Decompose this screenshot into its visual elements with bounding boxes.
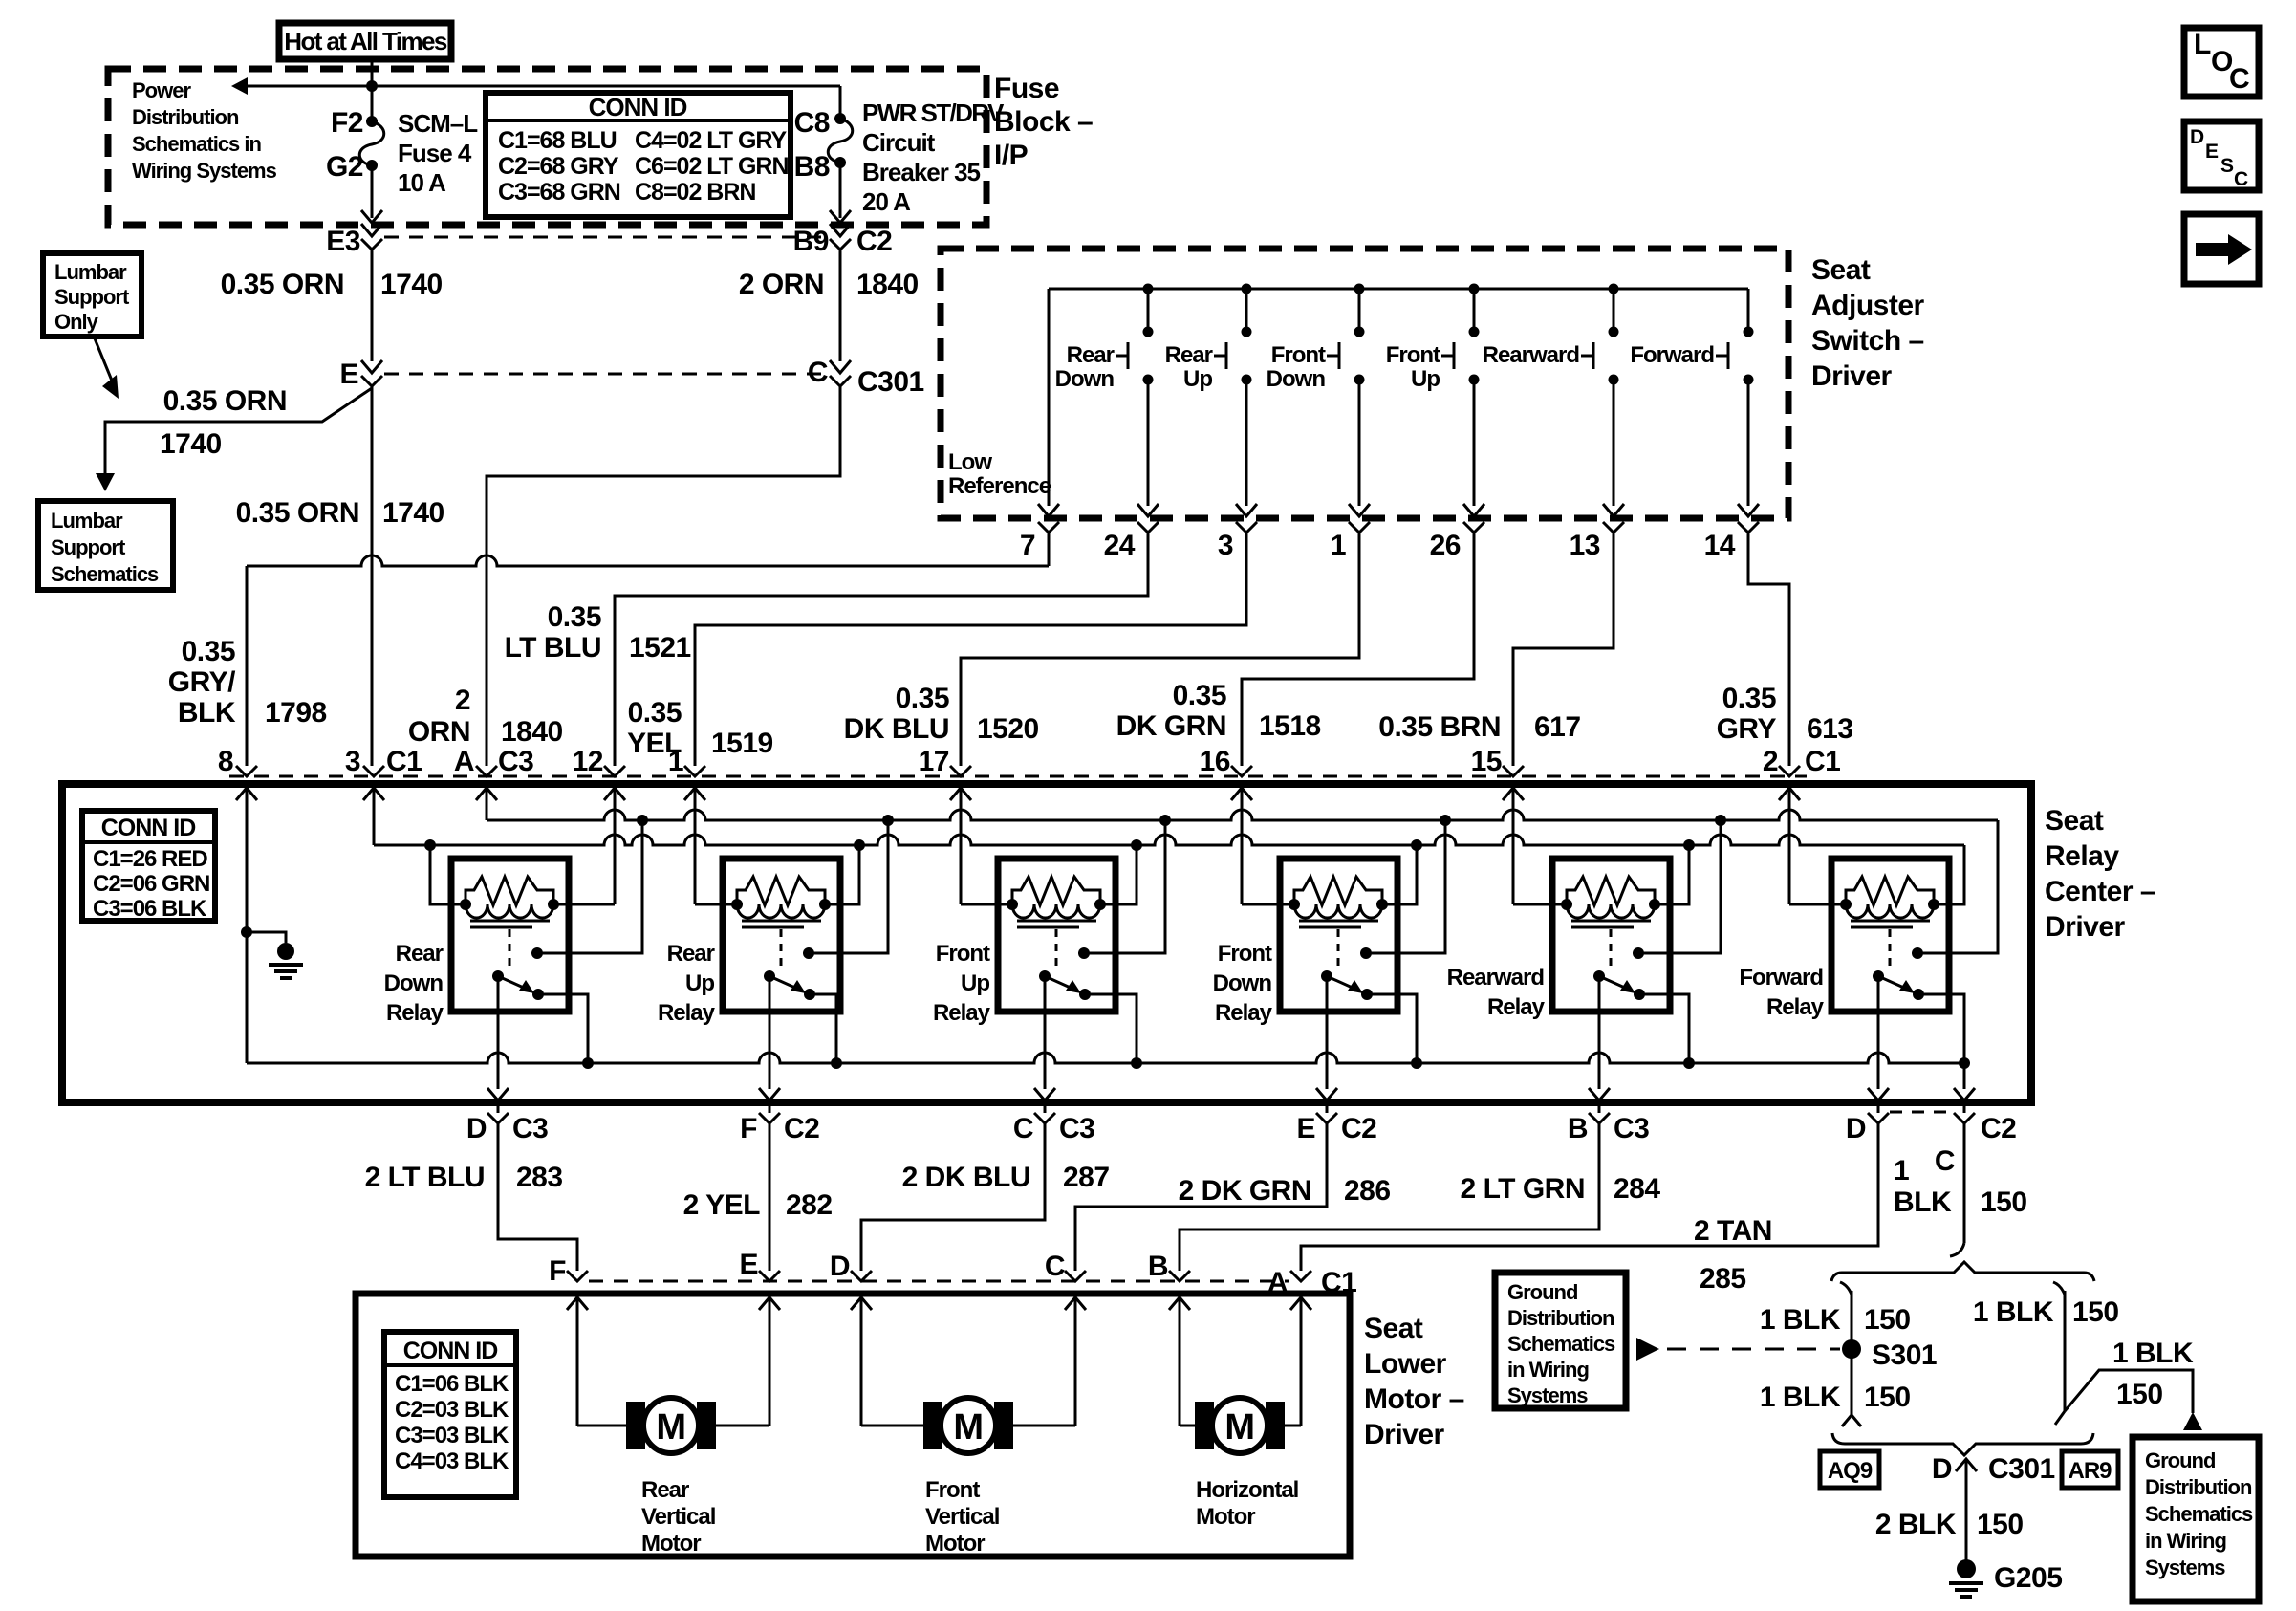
conn id table motor box	[384, 1332, 516, 1497]
svg-text:Relay: Relay	[1487, 994, 1546, 1020]
relay rearward coil inductor	[1561, 899, 1660, 918]
svg-text:Down: Down	[384, 970, 444, 996]
relay front up NO contact wire	[1084, 820, 1165, 953]
svg-text:F2: F2	[331, 107, 363, 139]
junction dot line B x1767	[1683, 839, 1695, 851]
wire pin 12 to rear down relay coil	[553, 799, 615, 904]
switch Rear Up	[1165, 289, 1257, 516]
svg-text:LT BLU: LT BLU	[505, 632, 601, 664]
svg-text:C1=26 RED: C1=26 RED	[93, 846, 207, 872]
relay center connector line C1/C3	[229, 775, 1807, 778]
relay front up box	[998, 859, 1116, 1012]
relay rear up coil feed riser	[825, 845, 859, 904]
relay front down core	[1299, 921, 1378, 927]
svg-text:C1: C1	[386, 746, 422, 777]
label 2 LT GRN 284	[1461, 1173, 1661, 1205]
svg-text:Adjuster: Adjuster	[1811, 290, 1925, 321]
label 0.35 LT BLU 1521	[505, 601, 691, 664]
svg-text:1 BLK: 1 BLK	[2112, 1338, 2194, 1369]
switch Front Up	[1386, 289, 1484, 516]
relay front down label	[1213, 941, 1273, 1026]
lumbar support schematics box	[38, 501, 173, 590]
splice right branch 1 BLK 150	[2053, 1282, 2065, 1425]
svg-text:13: 13	[1570, 530, 1600, 561]
svg-text:Seat: Seat	[1364, 1313, 1423, 1344]
low reference label	[948, 449, 1051, 499]
label 2 DK GRN 286	[1179, 1175, 1391, 1207]
label 2 LT BLU 283	[365, 1162, 563, 1193]
svg-text:Breaker 35: Breaker 35	[862, 158, 981, 186]
svg-text:Schematics: Schematics	[2145, 1502, 2253, 1526]
svg-text:C1: C1	[1321, 1267, 1356, 1298]
svg-text:Driver: Driver	[1811, 360, 1893, 392]
label 1 BLK 150 upper right	[1973, 1296, 2119, 1328]
svg-text:0.35: 0.35	[182, 636, 235, 667]
relay center pin labels 8 3 C1 A C3 12 1 17 16 15 2 C1	[218, 746, 1841, 777]
svg-text:M: M	[1224, 1407, 1254, 1448]
wire rear down switch to relay pin 12 (0.35 LT BLU 1521)	[615, 533, 1148, 766]
svg-text:C2=06 GRN: C2=06 GRN	[93, 871, 209, 897]
switch Rearward	[1483, 289, 1624, 516]
relay forward core	[1851, 921, 1930, 927]
ground G205	[1949, 1559, 2062, 1597]
wire 2 YEL 282 to motor pin E	[769, 1123, 771, 1271]
wire pin 8 ground column	[246, 799, 249, 1063]
svg-text:Front: Front	[925, 1477, 980, 1503]
relay forward common pivot wire out	[1868, 976, 1889, 1113]
motor box entry connector A	[1290, 1271, 1311, 1310]
relay front down NC contact wire to ground bus	[1367, 994, 1417, 1063]
relay center entry connector pin 2 C1	[1779, 766, 1800, 800]
label 1 BLK 150 upper left	[1760, 1304, 1911, 1336]
svg-text:C6=02 LT GRN: C6=02 LT GRN	[635, 153, 789, 180]
svg-text:2: 2	[455, 685, 470, 716]
svg-text:C: C	[1013, 1113, 1033, 1144]
svg-text:2 DK GRN: 2 DK GRN	[1179, 1175, 1311, 1207]
svg-text:E: E	[1296, 1113, 1315, 1144]
svg-text:D: D	[2190, 126, 2204, 148]
relay front up switch	[1039, 947, 1091, 1000]
wire 2 ORN 1840 from C301 to relay pin A	[487, 386, 840, 766]
switch Rear Down	[1055, 289, 1159, 516]
seat lower motor label	[1364, 1313, 1464, 1450]
svg-text:2 LT GRN: 2 LT GRN	[1461, 1173, 1585, 1205]
svg-text:Schematics in: Schematics in	[132, 132, 262, 156]
wire fuse output to E3	[361, 165, 382, 223]
relay rear up coil resistor	[737, 877, 825, 905]
svg-text:282: 282	[786, 1189, 833, 1221]
svg-text:150: 150	[2072, 1296, 2119, 1328]
svg-text:G205: G205	[1994, 1562, 2062, 1594]
svg-text:Rear: Rear	[396, 941, 444, 967]
svg-text:Lower: Lower	[1364, 1348, 1447, 1380]
relay front up common pivot wire out	[1034, 976, 1055, 1113]
svg-text:D: D	[1846, 1113, 1866, 1144]
connector E3	[326, 224, 382, 257]
junction dot ground bus x1482	[1411, 1057, 1422, 1069]
junction dot line B x899	[854, 839, 865, 851]
connector line C301 (E/C)	[384, 373, 828, 376]
junction dot ground bus x2055	[1959, 1057, 1970, 1069]
svg-text:20 A: 20 A	[862, 187, 911, 216]
wire 2 DK BLU 287 to motor pin D	[861, 1123, 1045, 1271]
svg-text:B: B	[1148, 1251, 1168, 1282]
svg-text:AR9: AR9	[2068, 1458, 2112, 1484]
relay front up coil inductor	[1007, 899, 1106, 918]
svg-text:150: 150	[1977, 1509, 2024, 1540]
relay rear down armature link dashed	[509, 929, 511, 969]
wire line A from pin A to relay NO contacts	[487, 799, 1998, 953]
svg-text:Rear: Rear	[1067, 342, 1115, 368]
relay rear up label	[658, 941, 716, 1026]
wire feeds for Horizontal Motor	[1180, 1309, 1301, 1426]
svg-text:Distribution: Distribution	[2145, 1475, 2252, 1499]
wire 2 DK GRN 286 to motor pin C	[1075, 1123, 1327, 1271]
connector E	[339, 359, 382, 390]
wire 0.35 ORN 1740 label	[221, 269, 443, 300]
svg-text:C: C	[1045, 1251, 1065, 1282]
svg-text:150: 150	[1864, 1304, 1911, 1336]
svg-text:Relay: Relay	[933, 1000, 991, 1026]
svg-text:C2: C2	[1981, 1113, 2016, 1144]
relay center entry connector pin 15	[1503, 766, 1524, 800]
svg-text:Driver: Driver	[2045, 911, 2126, 943]
svg-text:Distribution: Distribution	[132, 105, 239, 129]
svg-text:C3: C3	[1614, 1113, 1649, 1144]
relay rearward coil resistor	[1567, 877, 1655, 905]
svg-text:L: L	[2194, 29, 2211, 60]
svg-text:B9: B9	[793, 226, 829, 257]
svg-text:Horizontal: Horizontal	[1196, 1477, 1298, 1503]
svg-text:Motor: Motor	[925, 1531, 985, 1557]
junction dot ground bus x615	[582, 1057, 594, 1069]
relay center entry connector pin 17	[950, 766, 971, 800]
svg-text:C3: C3	[1059, 1113, 1094, 1144]
motor Rear Vertical Motor	[626, 1398, 716, 1453]
svg-text:Wiring Systems: Wiring Systems	[132, 159, 277, 183]
svg-text:E: E	[739, 1249, 758, 1280]
svg-text:Hot at All Times: Hot at All Times	[284, 27, 447, 55]
motor box entry connector D	[851, 1271, 872, 1310]
relay front down armature link dashed	[1337, 929, 1340, 969]
ground bus wire in relay center	[247, 1053, 1964, 1063]
motor box entry connector B	[1169, 1271, 1190, 1310]
relay rear down common pivot wire out	[487, 976, 509, 1113]
relay forward NC contact wire to ground bus	[1918, 994, 1964, 1063]
svg-text:in Wiring: in Wiring	[1507, 1358, 1589, 1382]
relay rearward NO contact wire	[1638, 820, 1721, 953]
svg-text:C: C	[808, 357, 828, 388]
wire pin 1 to rear up relay coil	[695, 799, 737, 904]
svg-text:C: C	[1935, 1145, 1955, 1177]
relay rear up armature link dashed	[780, 929, 783, 969]
junction dot ground bus x1189	[1131, 1057, 1142, 1069]
svg-text:Low: Low	[948, 449, 992, 475]
svg-text:617: 617	[1534, 711, 1581, 743]
svg-text:Ground: Ground	[2145, 1448, 2215, 1472]
svg-text:1740: 1740	[380, 269, 443, 300]
off page arrow to S301	[1636, 1338, 1840, 1361]
svg-text:G2: G2	[326, 151, 363, 183]
svg-text:B8: B8	[794, 151, 830, 183]
switch connector pins 7 24 3 1 26 13 14	[1020, 522, 1759, 561]
svg-text:S: S	[2220, 155, 2234, 177]
svg-text:2 DK BLU: 2 DK BLU	[902, 1162, 1030, 1193]
svg-text:0.35 ORN: 0.35 ORN	[221, 269, 344, 300]
label 0.35 YEL 1519	[627, 697, 773, 759]
svg-text:SCM–L: SCM–L	[398, 109, 478, 138]
svg-text:3: 3	[345, 746, 360, 777]
svg-text:1840: 1840	[501, 716, 563, 748]
svg-text:C: C	[2234, 168, 2248, 190]
relay front up NC contact wire to ground bus	[1085, 994, 1137, 1063]
svg-text:Rear: Rear	[667, 941, 715, 967]
label 1 BLK 150	[1894, 1155, 2027, 1218]
svg-text:D: D	[1932, 1453, 1952, 1485]
relay forward armature link dashed	[1889, 929, 1892, 969]
svg-text:Relay: Relay	[1766, 994, 1825, 1020]
svg-text:F: F	[740, 1113, 757, 1144]
switch Forward	[1630, 289, 1759, 516]
relay front up coil feed riser	[1100, 845, 1137, 904]
wire 1 BLK 150 from pin C to splice	[1950, 1123, 1964, 1256]
svg-text:A: A	[1267, 1267, 1288, 1298]
svg-text:1 BLK: 1 BLK	[1760, 1304, 1841, 1336]
svg-text:1: 1	[1331, 530, 1346, 561]
junction dot line A x1800	[1715, 815, 1726, 826]
conn id table fuse block	[486, 93, 791, 217]
motor Horizontal Motor	[1195, 1398, 1285, 1453]
switch Front Down	[1267, 289, 1370, 516]
relay rearward core	[1571, 921, 1651, 927]
DESC icon	[2184, 121, 2259, 190]
svg-text:1798: 1798	[265, 697, 327, 729]
relay rear up coil inductor	[731, 899, 831, 918]
label 0.35 DK BLU 1520	[844, 683, 1039, 745]
relay front down box	[1280, 859, 1397, 1012]
relay rear down core	[470, 921, 550, 927]
svg-text:0.35 BRN: 0.35 BRN	[1378, 711, 1501, 743]
seat adjuster switch dashed box	[941, 249, 1788, 518]
svg-text:I/P: I/P	[994, 140, 1028, 171]
svg-text:1840: 1840	[856, 269, 919, 300]
label 0.35 BRN 617	[1378, 711, 1580, 743]
relay front down coil resistor	[1294, 877, 1382, 905]
svg-text:PWR ST/DRV: PWR ST/DRV	[862, 98, 1005, 127]
svg-text:1519: 1519	[711, 728, 773, 759]
svg-text:Circuit: Circuit	[862, 128, 936, 157]
junction dot line B x1482	[1411, 839, 1422, 851]
wire ground bus to pin C (1 BLK)	[1954, 1063, 1975, 1113]
svg-text:Center –: Center –	[2045, 876, 2155, 907]
relay rearward coil feed riser	[1655, 845, 1689, 904]
relay rearward NC contact wire to ground bus	[1639, 994, 1689, 1063]
svg-text:Lumbar: Lumbar	[51, 509, 123, 533]
relay center entry connector pin 16	[1231, 766, 1252, 800]
relay forward coil inductor	[1840, 899, 1939, 918]
relay bottom pin labels	[466, 1113, 2017, 1177]
svg-text:0.35: 0.35	[1722, 683, 1776, 714]
AR9 box	[2062, 1451, 2118, 1488]
junction dot at F2 feed	[366, 80, 378, 92]
svg-text:Motor: Motor	[1196, 1504, 1255, 1530]
svg-text:Relay: Relay	[1215, 1000, 1273, 1026]
connector C C301	[808, 357, 924, 398]
svg-text:Rearward: Rearward	[1447, 965, 1545, 991]
connector line C2 (E3/B9)	[384, 236, 828, 239]
relay front up core	[1017, 921, 1096, 927]
svg-text:E3: E3	[326, 226, 360, 257]
svg-text:1740: 1740	[160, 428, 222, 460]
svg-text:1520: 1520	[977, 713, 1039, 745]
svg-text:287: 287	[1063, 1162, 1110, 1193]
junction dot ground bus x1767	[1683, 1057, 1695, 1069]
label 0.35 GRY 613	[1717, 683, 1853, 745]
relay rearward armature link dashed	[1610, 929, 1613, 969]
wire 1 BLK 150 to ground distribution	[2065, 1338, 2202, 1430]
svg-text:C4=02 LT GRY: C4=02 LT GRY	[635, 127, 788, 154]
svg-text:1: 1	[1894, 1155, 1909, 1186]
svg-text:Rearward: Rearward	[1483, 342, 1580, 368]
relay rear up core	[742, 921, 821, 927]
svg-text:Relay: Relay	[2045, 840, 2119, 872]
svg-text:15: 15	[1471, 746, 1502, 777]
ground distribution schematics box left	[1495, 1273, 1626, 1408]
svg-text:12: 12	[573, 746, 603, 777]
fuse block label	[994, 73, 1093, 171]
svg-text:Block –: Block –	[994, 106, 1093, 138]
label 2 DK BLU 287	[902, 1162, 1110, 1193]
svg-text:Down: Down	[1267, 366, 1326, 392]
svg-text:Only: Only	[54, 310, 99, 334]
label 0.35 ORN 1740 mid	[236, 497, 444, 529]
svg-text:Distribution: Distribution	[1507, 1306, 1614, 1330]
svg-text:GRY/: GRY/	[168, 666, 236, 698]
svg-text:Front: Front	[1386, 342, 1440, 368]
svg-text:285: 285	[1700, 1263, 1746, 1295]
junction dot ground bus x875	[831, 1057, 842, 1069]
svg-text:CONN ID: CONN ID	[589, 93, 687, 121]
arrow lumbar only to wire	[95, 338, 119, 399]
svg-text:in Wiring: in Wiring	[2145, 1529, 2226, 1553]
relay front down NO contact wire	[1366, 820, 1445, 953]
svg-text:0.35: 0.35	[896, 683, 949, 714]
svg-text:Down: Down	[1213, 970, 1272, 996]
relay rear up switch	[764, 947, 815, 1000]
relay forward label	[1739, 965, 1824, 1020]
svg-text:Down: Down	[1055, 366, 1115, 392]
fuse block dashed box	[108, 69, 986, 225]
svg-text:C2: C2	[784, 1113, 819, 1144]
relay rear up NC contact wire to ground bus	[810, 994, 836, 1063]
low reference wire	[1038, 289, 1059, 516]
label Horizontal Motor	[1196, 1477, 1298, 1530]
svg-text:24: 24	[1104, 530, 1136, 561]
circuit breaker PWR ST/DRV 35 20A	[794, 98, 1005, 216]
motor Front Vertical Motor	[923, 1398, 1013, 1453]
svg-text:GRY: GRY	[1717, 713, 1777, 745]
wire line B from pin 3 to relay coils	[374, 799, 1964, 904]
relay front up armature link dashed	[1055, 929, 1058, 969]
svg-text:0.35: 0.35	[1173, 680, 1226, 711]
svg-text:Schematics: Schematics	[1507, 1332, 1615, 1356]
svg-text:283: 283	[516, 1162, 563, 1193]
relay rear down NO contact wire	[537, 820, 642, 953]
svg-text:2: 2	[1763, 746, 1778, 777]
seat relay center box	[62, 784, 2031, 1102]
svg-text:Rear: Rear	[641, 1477, 689, 1503]
svg-text:Vertical: Vertical	[925, 1504, 999, 1530]
svg-text:150: 150	[1864, 1382, 1911, 1413]
relay rearward label	[1447, 965, 1546, 1020]
svg-text:10 A: 10 A	[398, 168, 446, 197]
svg-text:D: D	[830, 1251, 850, 1282]
connector D C301 to ground	[1932, 1453, 2055, 1560]
svg-text:F: F	[549, 1255, 566, 1287]
wire pin 17 to front up relay coil	[961, 799, 1012, 904]
relay center entry connector pin 1	[684, 766, 705, 800]
svg-text:0.35: 0.35	[548, 601, 601, 633]
junction dot line A x1512	[1440, 815, 1451, 826]
svg-text:Vertical: Vertical	[641, 1504, 715, 1530]
svg-text:26: 26	[1430, 530, 1461, 561]
junction dot ground stub	[241, 926, 252, 938]
relay forward coil feed riser	[1934, 845, 1964, 904]
svg-text:Reference: Reference	[948, 473, 1051, 499]
motor box entry connector F	[567, 1271, 588, 1310]
relay center bottom connectors D C3 F C2 C C3 E C2 B C3 D C C2	[487, 1113, 1975, 1123]
svg-text:C8: C8	[794, 107, 830, 139]
svg-text:2 ORN: 2 ORN	[739, 269, 824, 300]
svg-text:C2: C2	[1341, 1113, 1376, 1144]
label 2 TAN 285	[1694, 1215, 1772, 1295]
svg-text:0.35 ORN: 0.35 ORN	[163, 385, 287, 417]
svg-text:C301: C301	[1988, 1453, 2055, 1485]
seat lower motor box	[356, 1294, 1350, 1557]
svg-text:Power: Power	[132, 78, 191, 102]
svg-text:1: 1	[668, 746, 683, 777]
svg-text:C3: C3	[498, 746, 533, 777]
svg-text:Ground: Ground	[1507, 1280, 1577, 1304]
svg-text:2 YEL: 2 YEL	[683, 1189, 760, 1221]
relay rear up box	[723, 859, 840, 1012]
wire pin 2 to forward relay coil	[1789, 799, 1846, 904]
ground distribution schematics box right	[2133, 1437, 2259, 1601]
relay rear down switch	[492, 947, 544, 1000]
svg-text:CONN ID: CONN ID	[101, 815, 196, 841]
svg-text:7: 7	[1020, 530, 1035, 561]
wire 2 LT GRN 284 to motor pin B	[1180, 1123, 1599, 1271]
wire front down switch to relay pin 17 (0.35 DK BLU 1520)	[961, 533, 1359, 766]
svg-text:Up: Up	[961, 970, 989, 996]
connector B9 C2	[793, 224, 893, 257]
svg-text:C3=03 BLK: C3=03 BLK	[395, 1423, 509, 1448]
label 2 YEL 282	[683, 1189, 833, 1221]
svg-text:BLK: BLK	[1894, 1186, 1952, 1218]
svg-text:C3=06 BLK: C3=06 BLK	[93, 896, 207, 922]
wire B9 to C	[839, 250, 842, 361]
svg-text:BLK: BLK	[178, 697, 236, 729]
relay rear down coil feed riser	[430, 845, 466, 904]
relay rear up NO contact wire	[809, 820, 888, 953]
wire pin 15 to rearward relay coil	[1513, 799, 1567, 904]
wire hot feed with left arrow	[231, 59, 840, 121]
svg-text:M: M	[656, 1407, 685, 1448]
relay center entry connector pin A C3	[476, 766, 497, 800]
svg-text:0.35 ORN: 0.35 ORN	[236, 497, 359, 529]
svg-text:2 TAN: 2 TAN	[1694, 1215, 1772, 1247]
wire forward switch to relay pin 2 (0.35 GRY 613)	[1748, 533, 1789, 766]
